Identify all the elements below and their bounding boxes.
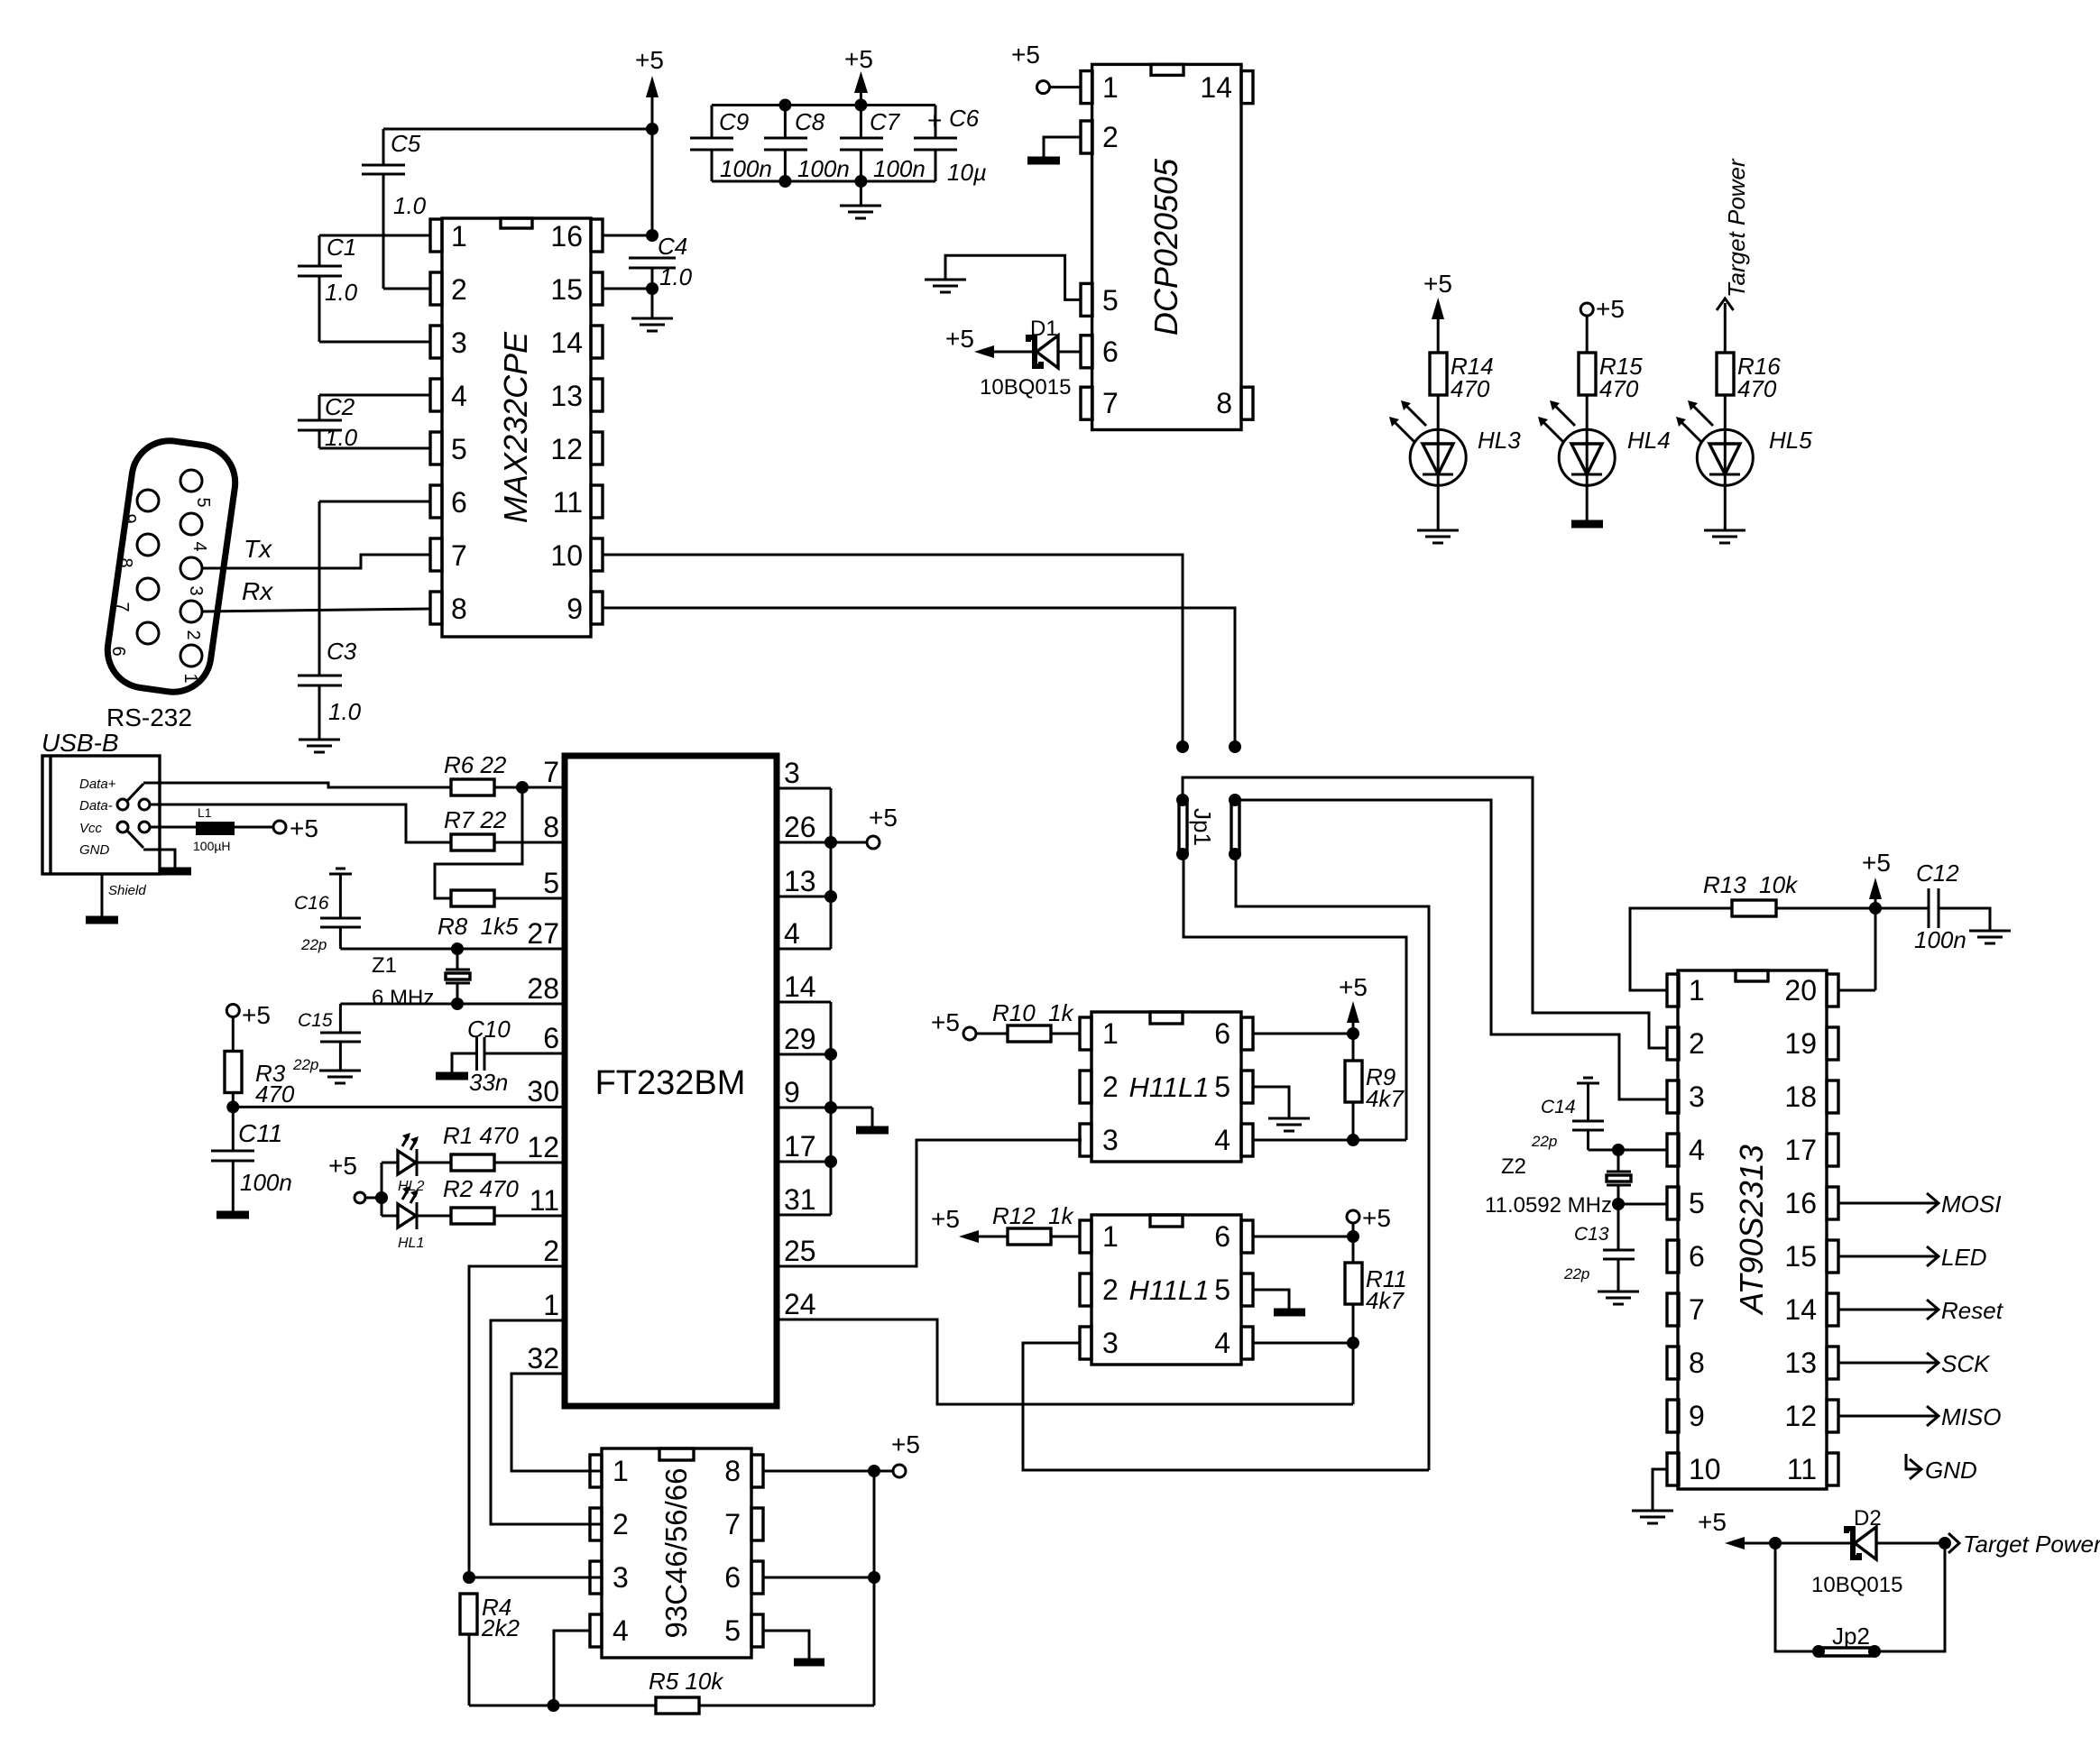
ground bar (FT232 pin9 net) (856, 1108, 889, 1130)
wire FT232 pin32 to 93C46 pin1 (511, 1374, 602, 1471)
svg-text:C13: C13 (1574, 1224, 1609, 1245)
svg-text:6: 6 (451, 486, 467, 519)
svg-text:HL2: HL2 (398, 1179, 424, 1194)
wire U5 pin6 to R9 (1253, 1027, 1359, 1040)
svg-text:Vcc: Vcc (79, 821, 103, 836)
svg-text:Reset: Reset (1941, 1297, 2004, 1324)
resistor R14 470 (1430, 353, 1494, 402)
ground at DCP pin2 (1027, 137, 1081, 161)
svg-text:6: 6 (1214, 1220, 1230, 1253)
resistor R13 10k (1630, 871, 1882, 990)
svg-text:C14: C14 (1541, 1097, 1576, 1117)
capacitor C3 (MAX232 pin6 to ground) (298, 501, 430, 740)
svg-text:1.0: 1.0 (659, 263, 693, 290)
resistor R7 22 (444, 806, 565, 850)
ground bar below C11 (216, 1211, 249, 1219)
svg-text:C3: C3 (327, 638, 357, 665)
svg-text:10BQ015: 10BQ015 (1811, 1573, 1902, 1597)
node SCK (AT90 pin13) (1838, 1350, 1991, 1377)
wire U6 pin4 (1253, 1342, 1353, 1345)
svg-text:9: 9 (119, 513, 139, 523)
svg-text:D2: D2 (1854, 1506, 1882, 1531)
svg-text:Target Power: Target Power (1963, 1531, 2100, 1558)
svg-text:14: 14 (550, 326, 583, 359)
svg-text:4: 4 (1214, 1327, 1230, 1359)
connector X1 : DB9 RS-232 (103, 436, 240, 731)
svg-text:D1: D1 (1030, 317, 1058, 341)
ground below C3 (299, 740, 340, 752)
svg-text:16: 16 (550, 220, 583, 253)
svg-text:100n: 100n (240, 1169, 292, 1196)
svg-text:4k7: 4k7 (1366, 1085, 1405, 1112)
svg-text:+5: +5 (1698, 1508, 1727, 1536)
svg-text:H11L1: H11L1 (1128, 1274, 1209, 1306)
svg-text:470: 470 (255, 1080, 295, 1108)
svg-text:6: 6 (1214, 1017, 1230, 1050)
svg-text:+5: +5 (635, 46, 664, 74)
capacitor C15 22p (FT232 pin28 to ground) (292, 1004, 361, 1073)
svg-text:26: 26 (784, 811, 816, 843)
wire Tx (DB9 pin4 to MAX232 pin7) (202, 535, 430, 568)
wire bracket FT232 pins 3,26,13,4 (777, 788, 867, 949)
capacitor C13 22p (AT90 pin5 to ground) (1563, 1204, 1635, 1292)
power +5 symbol (R9 top) (1339, 973, 1368, 1061)
svg-text:+5: +5 (931, 1205, 960, 1233)
resistor R12 1k (+5 arrow to U6 pin1) (931, 1202, 1080, 1245)
svg-text:Rx: Rx (242, 577, 273, 605)
svg-text:C9: C9 (719, 108, 749, 135)
svg-text:4k7: 4k7 (1366, 1287, 1405, 1314)
svg-text:HL3: HL3 (1478, 427, 1521, 454)
ground at AT90 pin10 (1632, 1469, 1673, 1523)
svg-text:2: 2 (1102, 1071, 1119, 1103)
ground at U5 pin5 (1253, 1087, 1310, 1131)
svg-text:30: 30 (527, 1075, 559, 1108)
ground at USB GND pin (127, 831, 191, 871)
wire top rail of cap bank (712, 99, 935, 112)
svg-text:1: 1 (451, 220, 467, 253)
optocoupler U6 : H11L1 lower body (1080, 1215, 1253, 1365)
ground below C15 (319, 1071, 361, 1083)
resistor R9 4k7 (1345, 1061, 1405, 1146)
svg-text:Shield: Shield (108, 883, 146, 898)
resistor R4 2k2 (460, 1594, 520, 1705)
svg-text:2: 2 (612, 1508, 629, 1540)
power +5 terminal (HL1/HL2 anodes) (328, 1152, 388, 1216)
capacitor C4 (MAX232 pin16/pin15) (603, 229, 693, 295)
svg-text:1: 1 (1102, 1220, 1119, 1253)
svg-text:15: 15 (1784, 1240, 1817, 1273)
svg-text:1: 1 (1102, 71, 1119, 104)
inductor L1 100uH (Vcc to +5) (150, 805, 318, 853)
svg-text:20: 20 (1784, 974, 1817, 1007)
wire AT90 pin4 net (1589, 1144, 1668, 1156)
capacitor C7 (840, 106, 926, 183)
svg-text:10BQ015: 10BQ015 (980, 375, 1071, 400)
node MOSI (AT90 pin16) (1838, 1191, 2001, 1218)
LED HL4 (1538, 395, 1671, 521)
svg-text:2: 2 (1102, 1273, 1119, 1306)
svg-text:5: 5 (1102, 284, 1119, 317)
svg-text:1: 1 (1102, 1017, 1119, 1050)
svg-text:15: 15 (550, 273, 583, 306)
capacitor C12 100n (1875, 860, 1990, 953)
svg-text:22p: 22p (1531, 1133, 1557, 1150)
ground below cap bank (840, 181, 881, 218)
svg-text:1.0: 1.0 (328, 698, 362, 725)
power +5 terminal (R11 top) (1347, 1204, 1391, 1263)
capacitor C9 (690, 106, 772, 183)
wire FT232 pin25 to H11L1#1 pin3 (777, 1140, 1082, 1266)
resistor R5 10k (649, 1668, 874, 1714)
svg-text:1.0: 1.0 (325, 424, 358, 451)
svg-text:3: 3 (784, 757, 800, 789)
svg-text:100n: 100n (720, 155, 772, 182)
IC U1 : MAX232CPE body (430, 218, 603, 637)
resistor R11 4k7 (1345, 1263, 1407, 1404)
svg-text:3: 3 (1102, 1327, 1119, 1359)
diode D2 10BQ015 (1811, 1506, 1951, 1597)
wire U5 pin4 to Jp1 left-bottom (1184, 854, 1406, 1140)
svg-text:R10 1k: R10 1k (992, 999, 1075, 1026)
svg-text:10: 10 (550, 539, 583, 572)
capacitor C8 (764, 106, 850, 183)
svg-text:7: 7 (724, 1508, 741, 1540)
svg-text:6: 6 (724, 1561, 741, 1594)
capacitor C14 22p (flipped ground to AT90 pin4) (1531, 1078, 1604, 1150)
wire Data- (USB to R7) (150, 804, 451, 842)
svg-text:+5: +5 (869, 804, 898, 832)
power +5 terminal (DCP pin1) (1011, 41, 1081, 94)
power +5 symbol (AT90 pin20 net) (1837, 849, 1891, 990)
node Reset (AT90 pin14) (1838, 1297, 2004, 1324)
power +5 symbol (top cap bank) (844, 45, 873, 106)
node Target Power (HL5 branch) (1717, 158, 1750, 353)
svg-text:3: 3 (1102, 1124, 1119, 1156)
wire Jp1 left-top to AT90S2313 pin2 (1183, 777, 1667, 1048)
svg-text:17: 17 (1784, 1134, 1817, 1166)
svg-text:470: 470 (1451, 375, 1490, 402)
svg-text:28: 28 (527, 972, 559, 1005)
svg-text:13: 13 (1784, 1347, 1817, 1379)
svg-text:1: 1 (180, 673, 200, 683)
optocoupler U5 : H11L1 upper body (1080, 1012, 1253, 1162)
svg-text:8: 8 (115, 557, 135, 567)
svg-text:6: 6 (108, 646, 128, 656)
svg-text:16: 16 (1784, 1187, 1817, 1219)
node Target Power (bottom) (1948, 1531, 2100, 1558)
svg-text:+5: +5 (1011, 41, 1040, 69)
resistor R16 470 (1717, 353, 1781, 402)
wire R4/R5/93C46-pin4 bottom node (469, 1631, 656, 1712)
svg-text:2: 2 (1102, 121, 1119, 153)
svg-text:14: 14 (1200, 71, 1232, 104)
svg-text:Target Power: Target Power (1723, 158, 1750, 298)
svg-text:10µ: 10µ (947, 159, 987, 186)
resistor R10 1k (+5 to U5 pin1) (931, 999, 1080, 1042)
svg-text:3: 3 (612, 1561, 629, 1594)
svg-text:5: 5 (1214, 1071, 1230, 1103)
ground below C12 (1969, 931, 2011, 943)
svg-text:8: 8 (1689, 1347, 1705, 1379)
svg-text:Data+: Data+ (79, 777, 116, 792)
wire MAX232 pin9 to Jp1 (603, 608, 1241, 753)
svg-text:+5: +5 (1362, 1204, 1391, 1232)
svg-text:+5: +5 (328, 1152, 357, 1180)
svg-text:1: 1 (543, 1289, 559, 1321)
capacitor C6 (electrolytic 10u) (914, 105, 987, 186)
svg-text:100n: 100n (797, 155, 850, 182)
power +5 terminal (HL4 branch) (1580, 295, 1625, 353)
svg-text:DCP020505: DCP020505 (1147, 158, 1184, 336)
ground below HL3 (1417, 530, 1459, 543)
wire Data+ (USB to R6) (127, 783, 451, 801)
power +5 symbol (HL3 branch) (1423, 270, 1452, 353)
svg-text:R6 22: R6 22 (444, 751, 507, 778)
svg-text:470: 470 (1599, 375, 1639, 402)
svg-text:14: 14 (1784, 1293, 1817, 1326)
svg-text:+5: +5 (945, 325, 974, 353)
wire U6 pin6 to R11 (1253, 1230, 1359, 1243)
power +5 arrow (D2 anode side) (1698, 1508, 1853, 1549)
svg-text:C15: C15 (298, 1010, 333, 1031)
svg-text:8: 8 (543, 811, 559, 843)
power +5 terminal (93C46 pin8 net) (880, 1430, 920, 1477)
svg-text:11: 11 (553, 486, 583, 519)
wire FT232 pin27 net (340, 942, 565, 955)
svg-text:22p: 22p (300, 936, 327, 953)
svg-text:L1: L1 (198, 805, 212, 820)
svg-text:Z2: Z2 (1501, 1154, 1526, 1179)
svg-text:C4: C4 (658, 233, 687, 260)
wire FT232 pin1 to 93C46 pin2 (491, 1320, 602, 1524)
svg-text:5: 5 (724, 1614, 741, 1647)
svg-text:4: 4 (612, 1614, 629, 1647)
svg-text:HL5: HL5 (1769, 427, 1812, 454)
svg-text:Z1: Z1 (372, 953, 397, 978)
svg-text:4: 4 (1689, 1134, 1705, 1166)
svg-text:+5: +5 (891, 1430, 920, 1458)
LED HL3 (1389, 395, 1521, 530)
memory U4 : 93C46/56/66 EEPROM body (590, 1448, 763, 1658)
svg-text:GND: GND (1925, 1457, 1977, 1484)
svg-text:8: 8 (451, 593, 467, 625)
capacitor C10 33n (FT232 pin6 to ground) (436, 1016, 565, 1096)
svg-text:9: 9 (784, 1076, 800, 1108)
svg-text:FT232BM: FT232BM (595, 1064, 746, 1102)
svg-text:SCK: SCK (1941, 1350, 1991, 1377)
svg-text:2: 2 (543, 1235, 559, 1267)
svg-text:11: 11 (530, 1184, 559, 1217)
svg-text:6: 6 (1689, 1240, 1705, 1273)
svg-text:+5: +5 (931, 1008, 960, 1036)
svg-text:C12: C12 (1916, 860, 1959, 887)
svg-text:+5: +5 (290, 814, 318, 842)
svg-text:4: 4 (189, 541, 209, 551)
svg-text:100n: 100n (873, 155, 926, 182)
svg-text:HL1: HL1 (398, 1236, 424, 1251)
mcu U7 : AT90S2313 body (1667, 970, 1838, 1489)
svg-text:+: + (927, 106, 942, 134)
crystal Z2 11.0592 MHz (1485, 1150, 1631, 1218)
resistor R3 470 (+5 to FT232 pin30) (225, 1001, 295, 1151)
svg-text:4: 4 (784, 917, 800, 950)
svg-text:6 MHz: 6 MHz (372, 986, 434, 1010)
ground below C4 (631, 289, 673, 331)
resistor R2 470 (FT232 pin11) (443, 1175, 565, 1224)
svg-text:R13 10k: R13 10k (1703, 871, 1799, 898)
capacitor C11 100n (211, 1119, 292, 1211)
svg-text:+5: +5 (1339, 973, 1368, 1001)
svg-text:22p: 22p (1563, 1265, 1589, 1283)
ground at 93C46 pin5 (763, 1631, 824, 1662)
wire FT232 pin2 to 93C46 pin3 (via R4 node) (463, 1266, 602, 1584)
LED HL2 (382, 1133, 451, 1194)
svg-text:RS-232: RS-232 (106, 703, 192, 731)
svg-text:3: 3 (1689, 1080, 1705, 1113)
svg-text:12: 12 (1784, 1400, 1817, 1432)
svg-text:2: 2 (1689, 1027, 1705, 1060)
wire Rx (DB9 pin3 to MAX232 pin8) (202, 577, 430, 611)
svg-text:8: 8 (724, 1455, 741, 1487)
svg-text:R5 10k: R5 10k (649, 1668, 724, 1695)
LED HL1 (382, 1186, 451, 1251)
ground below C13 (1598, 1292, 1639, 1304)
svg-text:7: 7 (1689, 1293, 1705, 1326)
svg-text:13: 13 (550, 380, 583, 412)
svg-text:27: 27 (527, 917, 559, 950)
svg-text:C5: C5 (391, 130, 421, 157)
LED HL5 (1676, 395, 1812, 530)
svg-text:470: 470 (1737, 375, 1777, 402)
svg-text:R2 470: R2 470 (443, 1175, 519, 1202)
svg-text:Tx: Tx (244, 535, 272, 563)
IC U3 : FT232BM body (527, 756, 815, 1406)
svg-text:+5: +5 (242, 1001, 271, 1029)
svg-text:Jp1: Jp1 (1189, 808, 1216, 846)
svg-text:8: 8 (1216, 387, 1232, 419)
svg-text:33n: 33n (469, 1069, 508, 1096)
wire +5 rail to C5 (383, 123, 659, 135)
resistor R6 22 (444, 751, 565, 795)
capacitor C1 (between MAX232 pin1 and pin3) (298, 234, 430, 342)
wire bottom rail of cap bank (712, 175, 935, 188)
svg-text:9: 9 (566, 593, 583, 625)
svg-text:9: 9 (1689, 1400, 1705, 1432)
svg-text:100n: 100n (1914, 926, 1966, 953)
svg-text:22p: 22p (292, 1056, 318, 1073)
svg-text:MOSI: MOSI (1941, 1191, 2001, 1218)
capacitor C5 (362, 129, 430, 289)
svg-text:18: 18 (1784, 1080, 1817, 1113)
svg-text:10: 10 (1689, 1453, 1721, 1485)
ground Shield (86, 874, 146, 920)
svg-text:2: 2 (451, 273, 467, 306)
svg-text:1.0: 1.0 (325, 279, 358, 306)
svg-text:Jp2: Jp2 (1832, 1623, 1870, 1650)
svg-text:6: 6 (543, 1022, 559, 1054)
svg-text:HL4: HL4 (1627, 427, 1671, 454)
jumper Jp1 (dual) (1176, 794, 1241, 860)
svg-text:5: 5 (193, 497, 213, 507)
svg-text:6: 6 (1102, 336, 1119, 368)
svg-text:5: 5 (1689, 1187, 1705, 1219)
svg-text:C7: C7 (870, 108, 901, 135)
wire AT90 pin5 net (1612, 1198, 1667, 1210)
svg-text:7: 7 (1102, 387, 1119, 419)
svg-text:C8: C8 (795, 108, 825, 135)
svg-text:93C46/56/66: 93C46/56/66 (659, 1468, 693, 1639)
svg-text:LED: LED (1941, 1244, 1987, 1271)
svg-text:5: 5 (543, 867, 559, 899)
converter U2 : DCP020505 IC body (1081, 64, 1253, 429)
svg-text:25: 25 (784, 1235, 816, 1267)
svg-text:C2: C2 (325, 393, 355, 420)
svg-text:AT90S2313: AT90S2313 (1733, 1145, 1770, 1315)
svg-text:2: 2 (183, 630, 203, 639)
wire Jp1 right-top to AT90S2313 pin3 (1235, 800, 1667, 1099)
svg-text:7: 7 (543, 756, 559, 788)
svg-text:100µH: 100µH (193, 839, 231, 853)
svg-text:19: 19 (1784, 1027, 1817, 1060)
ground at DCP pin5 (925, 255, 1081, 299)
wire FT232 pin28 net (340, 998, 565, 1010)
node GND stub (1906, 1454, 1977, 1484)
svg-text:USB-B: USB-B (41, 729, 119, 757)
power +5 symbol (top, feeds MAX232 pin16) (635, 46, 664, 235)
resistor R1 470 (FT232 pin12) (443, 1122, 565, 1171)
wire bracket FT232 pins 14,29,9,17,31 (777, 1002, 872, 1215)
svg-text:5: 5 (451, 433, 467, 465)
svg-text:2k2: 2k2 (481, 1614, 520, 1641)
wire FT232 pin30 net (233, 1106, 565, 1108)
svg-text:32: 32 (527, 1342, 559, 1374)
wire MAX232 pin10 to Jp1 (603, 555, 1189, 753)
svg-text:12: 12 (550, 433, 583, 465)
svg-text:+5: +5 (1596, 295, 1625, 323)
svg-text:R8 1k5: R8 1k5 (437, 913, 519, 940)
svg-text:5: 5 (1214, 1273, 1230, 1306)
svg-text:3: 3 (451, 326, 467, 359)
svg-text:7: 7 (451, 539, 467, 572)
svg-text:1: 1 (612, 1455, 629, 1487)
svg-text:C11: C11 (238, 1119, 282, 1147)
svg-text:14: 14 (784, 970, 816, 1003)
svg-text:+5: +5 (844, 45, 873, 73)
svg-text:3: 3 (186, 585, 206, 595)
svg-text:R7 22: R7 22 (444, 806, 507, 833)
svg-text:11.0592 MHz: 11.0592 MHz (1485, 1193, 1612, 1218)
crystal Z1 6 MHz (372, 949, 470, 1010)
diode D1 10BQ015 (DCP pin6 to +5) (945, 317, 1081, 400)
svg-text:R1 470: R1 470 (443, 1122, 519, 1149)
svg-text:MISO: MISO (1941, 1403, 2001, 1430)
connector X2 : USB-B (41, 729, 160, 874)
svg-text:4: 4 (1214, 1124, 1230, 1156)
svg-text:C6: C6 (949, 105, 980, 132)
node LED (AT90 pin15) (1838, 1244, 1987, 1271)
ground below HL5 (1704, 530, 1745, 543)
capacitor C16 22p (flipped ground to FT232 pin27) (294, 869, 361, 953)
capacitor C2 (between MAX232 pin4 and pin5) (298, 393, 430, 451)
svg-text:+5: +5 (1862, 849, 1891, 877)
svg-text:MAX232CPE: MAX232CPE (497, 331, 534, 523)
svg-text:7: 7 (112, 602, 132, 611)
svg-text:R12 1k: R12 1k (992, 1202, 1075, 1229)
svg-text:17: 17 (784, 1130, 816, 1163)
svg-text:11: 11 (1787, 1453, 1817, 1485)
svg-text:1: 1 (1689, 974, 1705, 1007)
